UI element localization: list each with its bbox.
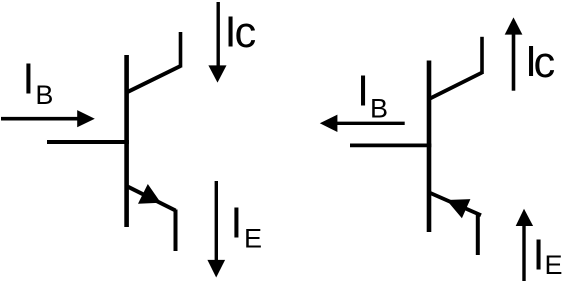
wire: Q1 collector lead [179, 32, 183, 68]
svg-text:I: I [533, 232, 545, 280]
wire: Q1 collector diagonal [126, 66, 181, 93]
wire: Q2 base lead [350, 143, 431, 147]
arrow IB (right, out of base) [336, 122, 405, 125]
svg-text:I: I [22, 56, 34, 104]
wire: Q2 emitter lead [476, 214, 480, 255]
wire: Q2 emitter diagonal [428, 192, 481, 215]
wire: Q2 collector lead [480, 37, 484, 74]
arrow IB (left, into base) [1, 117, 79, 121]
svg-text:c: c [534, 39, 556, 87]
wire: Q1 base lead [47, 140, 129, 144]
arrow IC (right, up out of collector) [512, 34, 516, 91]
wire: Q1 emitter lead [174, 210, 178, 252]
Q1 emitter arrowhead (NPN, points out) [138, 184, 161, 204]
arrow IC (left, down into collector) [216, 2, 219, 67]
svg-text:B: B [370, 94, 388, 124]
wire: Q2 collector diagonal [428, 73, 482, 100]
transistor Q2 (PNP) base bar [427, 61, 432, 233]
svg-text:I: I [357, 68, 369, 116]
transistor Q1 (NPN) base bar [124, 55, 129, 227]
Q2 emitter arrowhead (PNP, points in) [447, 199, 471, 218]
svg-text:E: E [244, 224, 262, 254]
svg-text:c: c [235, 9, 257, 57]
arrow IE (right, up into emitter) [522, 226, 525, 281]
svg-text:E: E [545, 250, 563, 280]
svg-text:B: B [35, 80, 53, 110]
svg-text:I: I [230, 200, 242, 248]
wire: Q1 emitter diagonal [126, 186, 176, 211]
arrow IE (left, down out of emitter) [215, 181, 218, 261]
